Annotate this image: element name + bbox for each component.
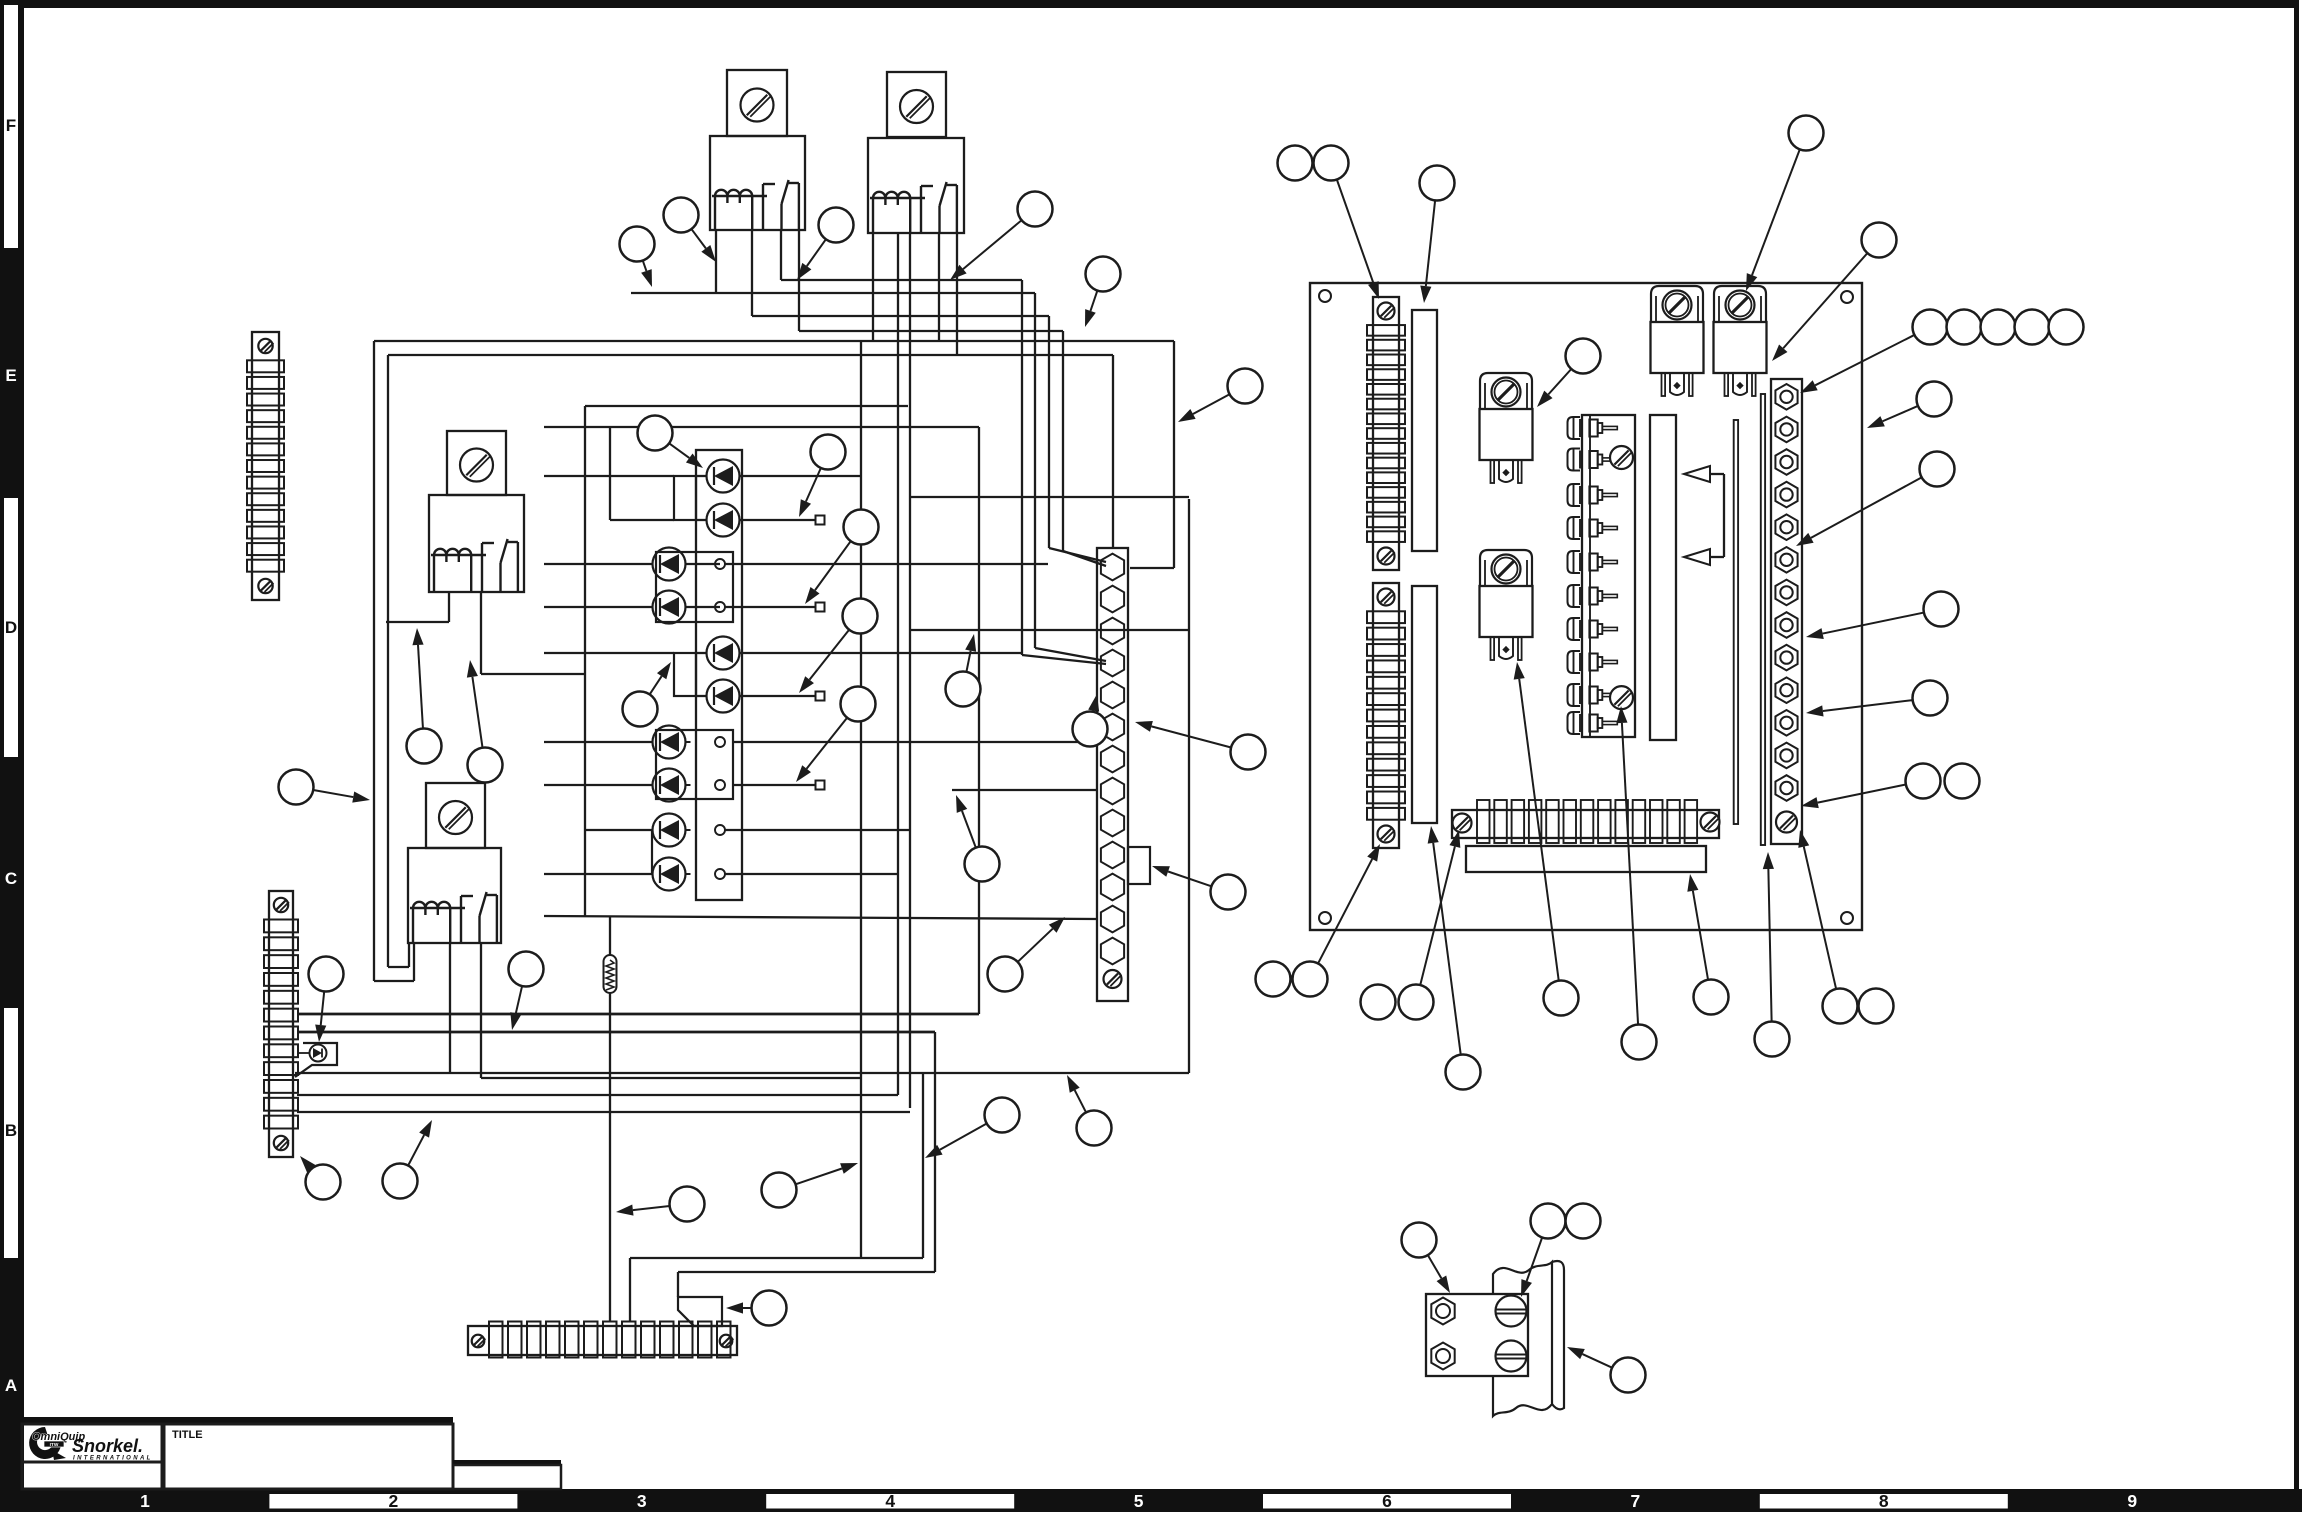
svg-text:INTERNATIONAL: INTERNATIONAL xyxy=(73,1456,153,1462)
svg-text:D: D xyxy=(5,618,17,637)
svg-text:6: 6 xyxy=(1382,1491,1392,1511)
svg-text:F: F xyxy=(6,116,16,135)
svg-text:B: B xyxy=(5,1121,17,1140)
svg-text:9: 9 xyxy=(2127,1491,2137,1511)
svg-text:Snorkel.: Snorkel. xyxy=(72,1436,143,1456)
svg-text:5: 5 xyxy=(1134,1491,1144,1511)
svg-text:TITLE: TITLE xyxy=(172,1429,203,1441)
svg-text:E: E xyxy=(5,366,16,385)
svg-text:8: 8 xyxy=(1879,1491,1889,1511)
svg-text:4: 4 xyxy=(885,1491,895,1511)
svg-text:7: 7 xyxy=(1631,1491,1641,1511)
svg-text:2: 2 xyxy=(389,1491,399,1511)
svg-text:3: 3 xyxy=(637,1491,647,1511)
svg-text:ITW: ITW xyxy=(50,1442,59,1448)
svg-text:A: A xyxy=(5,1376,17,1395)
svg-text:C: C xyxy=(5,869,17,888)
svg-text:1: 1 xyxy=(140,1491,150,1511)
